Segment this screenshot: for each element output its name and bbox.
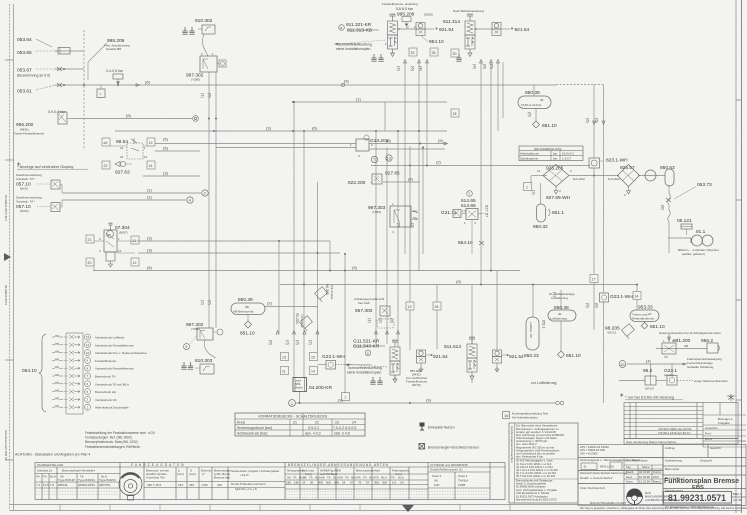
svg-text:NLA: NLA: [50, 475, 56, 479]
pressure regulator 823.1-WH: [589, 158, 628, 169]
wire 07.304 outputs: [138, 240, 330, 242]
svg-text:0,9+0,3bar: 0,9+0,3bar: [330, 285, 334, 299]
sensor 810.303: [181, 358, 214, 374]
svg-text:21: 21: [293, 420, 297, 424]
svg-text:Urspr. Rechtsschutz: Urspr. Rechtsschutz: [580, 486, 606, 490]
svg-text:TA: TA: [43, 475, 47, 479]
svg-text:Gepr: Gepr: [626, 475, 632, 479]
svg-text:Nach Betriebsanleitung: Nach Betriebsanleitung: [453, 9, 484, 13]
svg-text:11: 11: [86, 343, 89, 347]
display note: [17, 162, 88, 169]
svg-text:Kreis: Kreis: [237, 420, 245, 424]
svg-text:16: 16: [504, 413, 509, 418]
svg-text:Luftfederung: Luftfederung: [550, 317, 567, 321]
frame bottom lines with ruler: [10, 505, 742, 511]
wire 053.67 row: [55, 68, 84, 70]
wire G23.1-WH mid feed: [318, 364, 327, 366]
connector 053.65: [17, 48, 70, 57]
riser x387: [386, 148, 388, 345]
svg-text:180: 180: [294, 481, 299, 485]
sensor 910.302: [182, 18, 215, 56]
svg-text:(6): (6): [528, 112, 533, 118]
svg-text:57: 57: [350, 481, 354, 485]
svg-text:21: 21: [120, 146, 124, 150]
svg-text:(6): (6): [145, 80, 151, 85]
sensor row 8: [52, 390, 80, 394]
drain valve 851.10 mid: [240, 321, 255, 337]
svg-text:30: 30: [310, 481, 314, 485]
svg-text:Type B15/24: Type B15/24: [78, 478, 95, 482]
pressure sensor 057.10 a: [16, 173, 62, 193]
wire 057.10 rows: [62, 192, 201, 194]
svg-text:(Bezeichnung an 9.0): (Bezeichnung an 9.0): [17, 74, 50, 78]
svg-text:zur Luftfederung: zur Luftfederung: [531, 381, 557, 385]
svg-text:27,5/30/30 und 305/305/305: 27,5/30/30 und 305/305/305: [430, 463, 468, 467]
wire 981/956 row: [656, 348, 707, 350]
svg-text:13: 13: [282, 355, 286, 359]
svg-text:Absenkdruck Druckregler: Absenkdruck Druckregler: [95, 406, 129, 410]
svg-text:(eb.[6]): (eb.[6]): [664, 373, 674, 377]
svg-text:7,5: 7,5: [50, 483, 55, 487]
port boxes 13 26: [406, 302, 414, 310]
svg-text:850.32: 850.32: [533, 224, 548, 230]
foot brake module 04.200-KR: [293, 378, 332, 392]
svg-text:Funktionsplan Bremse: Funktionsplan Bremse: [664, 476, 739, 485]
svg-text:(8): (8): [661, 205, 666, 211]
svg-text:Bremsdruck HA: Bremsdruck HA: [95, 390, 116, 394]
svg-text:(6): (6): [147, 265, 153, 270]
svg-text:851.1: 851.1: [552, 210, 564, 216]
svg-text:823.1-WH: 823.1-WH: [606, 158, 628, 164]
frame left double line: [10, 4, 14, 510]
svg-text:A (perf)ne Teil: A (perf)ne Teil: [146, 476, 165, 480]
middle column small tables: [578, 445, 663, 506]
svg-text:(9n02): (9n02): [20, 209, 29, 213]
svg-text:Schnueffelentlueftung: Schnueffelentlueftung: [338, 43, 372, 47]
svg-text:Schutzvermerk DIN 34: Schutzvermerk DIN 34: [4, 430, 8, 461]
svg-text:850.23: 850.23: [524, 353, 539, 359]
sensor row 2: [52, 343, 80, 347]
filter box 96.2: [645, 376, 656, 391]
svg-text:7: 7: [468, 192, 470, 196]
pressure switch 95.204: [295, 313, 312, 331]
svg-text:953.33: 953.33: [638, 305, 653, 311]
svg-text:921.54: 921.54: [509, 354, 524, 360]
svg-text:0,0: 0,0: [400, 481, 405, 485]
svg-text:KA-Anhebefunktion: KA-Anhebefunktion: [512, 415, 538, 419]
solenoid valve 967.303: [368, 202, 418, 234]
wire long row (6)/(9) y270.5: [93, 270, 520, 272]
svg-text:23: 23: [335, 420, 339, 424]
svg-text:siehe Installationsplan: siehe Installationsplan: [336, 47, 370, 51]
svg-text:76: 76: [358, 481, 362, 485]
port box 18 mid: [451, 109, 459, 117]
wire bottom row (9) y403: [296, 402, 556, 404]
svg-text:(4): (4): [646, 359, 652, 364]
riser x481: [480, 62, 482, 285]
svg-text:(6): (6): [208, 93, 213, 99]
svg-text:(6): (6): [411, 66, 416, 72]
sensor row 3: [52, 351, 80, 355]
MAN logo: [627, 489, 678, 506]
svg-text:(8): (8): [595, 303, 600, 309]
svg-text:13: 13: [408, 305, 412, 309]
switch block 98.54: [102, 138, 155, 169]
sensor row 5: [52, 366, 80, 370]
svg-text:614.66: 614.66: [461, 203, 476, 209]
svg-text:HB/705L: HB/705L: [99, 483, 111, 487]
svg-text:Luftbeh. 30l: Luftbeh. 30l: [529, 322, 533, 338]
svg-text:F A H R Z E U G D A T E N: F A H R Z E U G D A T E N: [131, 463, 184, 467]
svg-text:(1): (1): [147, 188, 153, 193]
sensor row 1: [52, 335, 80, 339]
svg-text:Bremsdruck TA: Bremsdruck TA: [95, 375, 115, 379]
svg-text:7,0-0,2 6,9-0,5: 7,0-0,2 6,9-0,5: [333, 426, 356, 430]
wire row (1) upper mid: [293, 101, 447, 103]
svg-text:3 B.98.1.1519 Apr.99 Kz: 3 B.98.1.1519 Apr.99 Kz: [658, 431, 691, 435]
svg-text:Baumuster: Baumuster: [665, 467, 680, 471]
label 995.208 top: [382, 2, 433, 29]
svg-text:NLA: NLA: [369, 476, 375, 480]
svg-text:9,9-0,2: 9,9-0,2: [308, 426, 319, 430]
svg-text:stat. 3 4,5: stat. 3 4,5: [334, 431, 350, 435]
svg-text:Kreis 2: Kreis 2: [458, 474, 468, 478]
svg-text:921.54: 921.54: [515, 27, 530, 33]
riser 850.23 stub: [532, 285, 534, 318]
connector 053.61: [17, 83, 65, 95]
svg-text:Freigabe: Freigabe: [718, 421, 730, 425]
riser x330: [329, 241, 331, 271]
svg-text:K20B: K20B: [458, 483, 465, 487]
port box 17: [590, 275, 598, 283]
svg-text:851.1: 851.1: [542, 320, 546, 329]
riser 981.200 feed: [668, 334, 670, 343]
svg-text:Geteilte BR: Geteilte BR: [106, 47, 122, 51]
svg-text:850.39: 850.39: [238, 297, 253, 303]
note Schnueffelentlueftung B: [345, 364, 382, 375]
svg-text:VORRATSDRUECKE - SCHALTDRUEC: VORRATSDRUECKE - SCHALTDRUECKE: [258, 415, 328, 419]
hand brake valve 07.304: [86, 223, 139, 270]
svg-text:Luftfederung: Luftfederung: [551, 296, 568, 300]
node circle 2: [202, 190, 208, 196]
svg-text:(5): (5): [126, 113, 132, 118]
svg-text:ALB Einstellwerte It. Tabelle: ALB Einstellwerte It. Tabelle: [516, 491, 550, 495]
svg-text:17: 17: [592, 277, 596, 281]
svg-text:054.10: 054.10: [22, 368, 37, 374]
pressure switch 927.65: [348, 171, 400, 187]
svg-text:(9n3r): (9n3r): [20, 187, 28, 191]
riser box3 feeds: [650, 364, 652, 376]
svg-text:MAN: MAN: [645, 491, 651, 495]
wire 053.65 row: [55, 50, 84, 52]
svg-text:7,0-0,5bar: 7,0-0,5bar: [300, 314, 304, 328]
svg-text:MAN-AKTIENGESELLSCHAFT: MAN-AKTIENGESELLSCHAFT: [590, 501, 627, 505]
riser block to (9) row: [299, 391, 301, 403]
svg-text:12g: 12g: [412, 217, 417, 221]
svg-text:6+0,2bar: 6+0,2bar: [573, 177, 585, 181]
revision table top right: [624, 403, 738, 439]
certification stamp: [119, 473, 142, 501]
svg-text:12: 12: [144, 155, 148, 159]
svg-text:Schnueffelentlueftung: Schnueffelentlueftung: [348, 366, 382, 370]
svg-text:Nebenverbraucher bei 16-Schalt: Nebenverbraucher bei 16-Schaltgetriebe S…: [659, 331, 721, 335]
drain valve 851.10 top: [533, 121, 558, 129]
svg-text:20: 20: [648, 312, 652, 316]
svg-text:TA: TA: [391, 476, 395, 480]
svg-text:TA/KLA-OLFrei: TA/KLA-OLFrei: [521, 103, 542, 107]
middle area columns: [175, 467, 177, 500]
svg-text:FAHRGESTELLNR.: FAHRGESTELLNR.: [37, 463, 64, 467]
svg-text:921.54: 921.54: [439, 27, 454, 33]
svg-text:24: 24: [302, 481, 306, 485]
svg-text:3/8: 3/8: [684, 344, 689, 348]
svg-text:Modul: Modul: [295, 386, 304, 390]
svg-text:Einbauteil Nutzen: Einbauteil Nutzen: [428, 426, 455, 430]
svg-text:851.10: 851.10: [566, 353, 581, 359]
wire 91.1 feed row: [668, 237, 691, 239]
right side small cells: [702, 403, 704, 448]
svg-text:22: 22: [104, 164, 108, 168]
reservoir oval 850.39 Bremsomat: [231, 297, 265, 321]
svg-text:91.1: 91.1: [696, 229, 706, 235]
small wire labels: [126, 79, 652, 403]
riser x405: [404, 62, 406, 254]
sensor row 9: [52, 397, 80, 401]
DRUCKMESSLISTE table: [519, 146, 583, 161]
svg-text:430 7,16,5: 430 7,16,5: [147, 483, 162, 487]
svg-text:(3): (3): [147, 248, 153, 253]
port boxes 13 15 11 14: [281, 353, 289, 361]
svg-text:957.300: 957.300: [355, 308, 373, 314]
riser x317: [317, 182, 319, 352]
riser x437: [436, 285, 438, 303]
svg-text:Vorrat-Feststellbremse: Vorrat-Feststellbremse: [14, 132, 45, 136]
flow arrows on risers: [136, 60, 687, 366]
svg-text:Vorratsdruck Feststellbremse: Vorratsdruck Feststellbremse: [95, 343, 134, 347]
svg-text:DRUCKMESSLISTE: DRUCKMESSLISTE: [534, 147, 562, 151]
svg-text:24V = M.2000: 24V = M.2000: [580, 451, 598, 455]
svg-text:6,5: 6,5: [392, 481, 397, 485]
cylinders 91.1: [678, 229, 719, 256]
throttle G21.11: [441, 209, 467, 218]
svg-text:Schaltspanne: Schaltspanne: [520, 157, 539, 161]
test connection 957.300: [354, 297, 394, 328]
svg-text:VB-Bremsomat: VB-Bremsomat: [233, 310, 254, 314]
svg-text:Ers.d.: Ers.d.: [705, 437, 713, 441]
svg-text:911.313-KB: 911.313-KB: [347, 28, 372, 34]
riser x594: [593, 85, 595, 159]
[16] legend note: [503, 412, 549, 420]
left area columns: [56, 467, 58, 500]
reservoir 950.53: [660, 165, 675, 186]
port boxes 32 28: [409, 48, 438, 56]
reservoir oval 850.39 top: [518, 90, 551, 109]
svg-text:Sachnummer: Sachnummer: [665, 488, 683, 492]
svg-text:300: 300: [382, 481, 387, 485]
svg-text:900: 900: [318, 481, 323, 485]
svg-text:Nebenabnehmer: Nebenabnehmer: [632, 317, 654, 321]
sensor row 7: [52, 382, 80, 386]
exhaust hatches lower valve: [370, 377, 375, 384]
svg-text:Blatt 1: Blatt 1: [733, 492, 742, 496]
svg-text:Ausfuehrung: Ausfuehrung: [665, 459, 682, 463]
svg-text:(9): (9): [426, 398, 432, 403]
svg-text:4,0-0,2: 4,0-0,2: [607, 331, 617, 335]
svg-text:Norm: Norm: [626, 480, 634, 484]
svg-text:NLA: NLA: [333, 476, 339, 480]
svg-text:(2): (2): [267, 301, 273, 306]
svg-text:053.64: 053.64: [17, 37, 32, 43]
svg-text:Bremse bei): Bremse bei): [214, 476, 230, 480]
svg-text:* Anzeige auf zentralem Displa: * Anzeige auf zentralem Display: [17, 164, 73, 169]
riser x503: [502, 62, 504, 118]
svg-text:300: 300: [374, 481, 379, 485]
riser 850.39-3 stubs: [560, 290, 562, 310]
exhaust hatches under valve A: [371, 54, 376, 61]
svg-text:81.99231.0571: 81.99231.0571: [668, 493, 726, 503]
svg-text:(Y280): (Y280): [191, 78, 200, 82]
svg-text:AV-0,5: AV-0,5: [645, 387, 654, 391]
buzzer 927.63: [115, 161, 132, 175]
svg-text:Vorratsdruck VA: Vorratsdruck VA: [95, 398, 116, 402]
coupling with ring lower right: [667, 376, 677, 386]
svg-text:TA: TA: [363, 476, 367, 480]
svg-text:9: 9: [185, 345, 187, 349]
svg-text:14: 14: [635, 294, 639, 298]
svg-text:(6): (6): [483, 64, 488, 70]
svg-text:dyn. nach 4912.2: dyn. nach 4912.2: [516, 442, 537, 446]
svg-text:TA: TA: [327, 476, 331, 480]
svg-text:VA: VA: [36, 475, 40, 479]
VORRATSDRUECKE table: [235, 413, 365, 436]
riser x427: [426, 62, 428, 166]
svg-text:(3): (3): [296, 340, 301, 346]
svg-text:Type B16/24: Type B16/24: [99, 478, 116, 482]
wire 955.200 row (5): [70, 118, 192, 120]
svg-text:10: 10: [86, 351, 90, 355]
svg-text:Vorratsanzeigen: Ref. (: Vorratsanzeigen: Ref. (96L 3000): [85, 436, 132, 440]
svg-text:NLA: NLA: [351, 476, 357, 480]
svg-text:81.99231.0571 Bl.1: 81.99231.0571 Bl.1: [4, 195, 8, 221]
svg-text:822.200: 822.200: [348, 180, 366, 186]
svg-text:40: 40: [558, 312, 562, 316]
svg-text:fgrd=fC+ cm + 8: fgrd=fC+ cm + 8: [235, 487, 257, 491]
svg-text:Geprueft: Geprueft: [700, 459, 712, 463]
svg-text:TA: TA: [309, 476, 313, 480]
riser x385 short: [384, 102, 386, 131]
drain valve 851.10 right: [641, 323, 665, 331]
svg-text:(6): (6): [586, 118, 591, 124]
svg-text:(5): (5): [163, 146, 169, 151]
svg-text:450: 450: [189, 483, 194, 487]
svg-text:10: 10: [620, 362, 625, 367]
svg-text:22: 22: [120, 155, 124, 159]
svg-text:851.10: 851.10: [650, 324, 665, 330]
node circle 10: [619, 361, 626, 368]
svg-text:22g: 22g: [412, 209, 417, 213]
svg-text:927.65: 927.65: [385, 171, 400, 177]
riser dashed left bus: [83, 30, 85, 150]
svg-text:dyn. Hinterachse 4 bar: dyn. Hinterachse 4 bar: [516, 454, 543, 458]
svg-text:VA: VA: [303, 476, 307, 480]
svg-text:(3): (3): [266, 126, 272, 131]
wire oval to riser (2): [265, 306, 318, 308]
end connector of (9) row: [556, 401, 564, 405]
svg-text:(5): (5): [438, 138, 444, 143]
right area columns: [299, 467, 301, 500]
svg-text:Festeinstellung der Praxistati: Festeinstellung der Praxistationswerte n…: [85, 431, 156, 435]
svg-text:851.10: 851.10: [542, 123, 557, 129]
riser x345: [344, 254, 346, 393]
svg-text:0,4-0,5 bar: 0,4-0,5 bar: [106, 69, 124, 73]
label 854.10: [458, 228, 484, 254]
riser x423: [422, 146, 424, 254]
svg-text:(4): (4): [473, 64, 478, 70]
connector rings end of (5) row: [193, 116, 199, 122]
svg-text:EBS: EBS: [692, 485, 704, 491]
check valve 0,4-0,5 bar: [106, 69, 124, 85]
coupling G23.1-WH mid: [322, 354, 345, 369]
solenoid valve 967.302 top: [186, 52, 226, 82]
svg-text:18: 18: [453, 112, 457, 116]
dotted data rows: [36, 492, 488, 498]
svg-text:Bremszylinderdruck: Data (96: Bremszylinderdruck: Data (96L 1202): [85, 440, 138, 444]
svg-text:(5) T.6x2 F.81.42641.x.xx 26: (5) T.6x2 F.81.42641.x.xx 26.403: [516, 474, 555, 478]
svg-text:(2): (2): [208, 300, 213, 306]
svg-text:910.302: 910.302: [195, 18, 213, 24]
frame right double line: [736, 0, 742, 513]
svg-text:Vorratsdruck Feststellbremse: Vorratsdruck Feststellbremse: [95, 367, 134, 371]
svg-text:30: 30: [453, 52, 457, 56]
svg-text:VA: VA: [339, 476, 343, 480]
riser x498: [497, 62, 499, 131]
port box 30: [451, 49, 459, 57]
riser x497 to small valve: [496, 271, 498, 350]
pilot valve B right: [475, 23, 510, 36]
node 053.64: [17, 37, 52, 47]
left margin tick marks: [5, 60, 741, 460]
test port box on main row: [97, 89, 105, 98]
svg-text:(9070): (9070): [412, 383, 421, 387]
wire main supply row (6): [55, 84, 556, 86]
svg-text:Werkstoff (Zeile) Rohteil-Sac: Werkstoff (Zeile) Rohteil-Sachnummer: [580, 471, 628, 475]
svg-text:bar: bar: [553, 157, 557, 161]
svg-text:95.204: 95.204: [295, 313, 299, 324]
svg-text:B R E M S Z Y L I N D E R - A: B R E M S Z Y L I N D E R - A B M E S S …: [288, 463, 389, 467]
svg-text:NLA: NLA: [315, 476, 321, 480]
svg-text:(3): (3): [163, 171, 169, 176]
svg-text:NLA: NLA: [381, 476, 387, 480]
riser x294 long: [293, 102, 295, 378]
svg-text:Wolf: Wolf: [653, 475, 659, 479]
svg-text:04.03.98: 04.03.98: [639, 470, 650, 474]
title area: [663, 445, 746, 506]
svg-text:[mm]: [mm]: [189, 472, 196, 476]
svg-text:57: 57: [366, 481, 370, 485]
svg-text:053.61: 053.61: [17, 89, 32, 95]
note Schnueffelentlueftung A: [334, 40, 386, 51]
svg-text:(6): (6): [269, 340, 274, 346]
svg-text:850.39: 850.39: [525, 90, 540, 96]
riser 950.53 wavy down: [668, 185, 671, 253]
wire 96.2 row: [619, 380, 645, 382]
svg-text:(2): (2): [532, 190, 537, 196]
instructions text block above bottom table: [85, 431, 156, 449]
svg-text:20: 20: [88, 261, 92, 265]
riser x279: [278, 241, 280, 334]
riser x398 to lower valve: [397, 131, 399, 347]
svg-text:12: 12: [118, 249, 122, 253]
